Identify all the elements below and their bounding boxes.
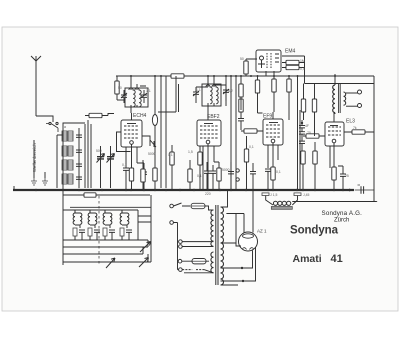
left vertical wires to bus xyxy=(14,185,63,190)
resistor R2 xyxy=(129,168,133,190)
cap C8 xyxy=(210,165,216,190)
cap C10 xyxy=(238,119,244,131)
resistor R-ant horizontal xyxy=(85,113,108,117)
ground mark A xyxy=(31,178,37,185)
svg-text:J 1,5: J 1,5 xyxy=(270,193,277,197)
svg-text:70: 70 xyxy=(307,131,311,135)
resistor R18 horizontal xyxy=(303,134,325,138)
svg-text:ECH4: ECH4 xyxy=(133,113,147,119)
cap C2 xyxy=(123,168,129,190)
ECH4 cathode wires xyxy=(126,144,137,168)
IF transformer T1 frame xyxy=(125,88,148,107)
rail junction dots xyxy=(130,75,336,77)
mains terminal 2 xyxy=(170,221,174,225)
svg-text:0,1: 0,1 xyxy=(122,163,127,167)
IFT2 primary coil xyxy=(206,85,212,104)
output transformer core xyxy=(339,83,341,113)
resistor R11b xyxy=(239,97,243,119)
front-end coil L4 xyxy=(62,174,67,184)
svg-text:1,5: 1,5 xyxy=(188,150,193,154)
svg-text:41: 41 xyxy=(331,253,343,265)
front-end coil L1 xyxy=(62,131,67,141)
resistor R20a xyxy=(312,84,316,137)
lower-left feed wire xyxy=(63,190,150,265)
mains switch xyxy=(174,203,191,206)
transformer core xyxy=(216,205,218,285)
svg-text:5000: 5000 xyxy=(148,152,156,156)
power transformer primary xyxy=(179,206,214,273)
resistor R5 xyxy=(170,145,174,190)
output transformer secondary xyxy=(344,92,346,105)
resistor R12 (70k) xyxy=(241,129,263,133)
resistor R13 xyxy=(244,136,248,190)
front-end coil L2 xyxy=(62,146,67,156)
EBF2 bottom wires xyxy=(203,144,214,190)
svg-text:50: 50 xyxy=(118,86,122,90)
EL3 screen resistor R21 xyxy=(344,130,374,134)
tuning gang cap 1 xyxy=(100,146,102,188)
cap C11 xyxy=(265,169,271,190)
EM4 resistor Ra xyxy=(282,60,305,64)
bottom fuse F2 xyxy=(192,259,206,264)
double vertical shield wires xyxy=(298,76,301,190)
resistor R11 xyxy=(239,76,243,110)
trimmer cap row 4 xyxy=(76,177,82,179)
svg-text:0,1: 0,1 xyxy=(168,153,173,157)
ground mark B xyxy=(42,178,48,185)
wires to right xyxy=(138,195,151,267)
tube EBF2 xyxy=(197,113,221,146)
svg-text:EL3: EL3 xyxy=(346,119,355,125)
AZ1 B+ feed xyxy=(253,203,255,205)
resistor R20 xyxy=(313,142,317,190)
tube EM4 box xyxy=(256,50,281,72)
svg-text:Sondyna: Sondyna xyxy=(290,225,339,237)
resistor R22 xyxy=(332,167,336,190)
bank vertical wires xyxy=(79,120,91,188)
EM4 resistor Rb xyxy=(282,65,305,69)
tube EL3 xyxy=(325,122,344,146)
svg-text:EBF2: EBF2 xyxy=(207,114,220,120)
tiny value labels xyxy=(64,57,357,197)
EM4 right wire xyxy=(282,56,374,84)
svg-text:7k: 7k xyxy=(353,126,357,130)
IFT1 primary coil xyxy=(129,88,135,107)
EM4 base wires xyxy=(266,71,274,76)
IFT2 trimmer left xyxy=(193,87,199,103)
resistor R4 xyxy=(153,168,157,190)
IFT1 trimmer left xyxy=(121,90,127,103)
cap C9 xyxy=(228,162,234,190)
resistor R1 xyxy=(115,76,119,100)
svg-text:4F: 4F xyxy=(305,124,309,128)
resistor R16 xyxy=(287,76,291,120)
svg-text:Zürch: Zürch xyxy=(334,217,349,223)
EF9 bottom wires xyxy=(268,143,278,168)
svg-text:1,1: 1,1 xyxy=(146,89,151,93)
resistor R7 on rail xyxy=(171,74,184,78)
wire xyxy=(117,99,125,101)
osc coil group 2 xyxy=(88,210,100,240)
resistor R8 xyxy=(214,162,221,190)
trimmer cap row 3 xyxy=(76,164,82,166)
right B+ vertical xyxy=(373,76,375,202)
filter choke xyxy=(266,194,298,205)
svg-text:Sondyna A.G.: Sondyna A.G. xyxy=(322,210,363,217)
svg-text:1,1: 1,1 xyxy=(196,88,201,92)
choke legs boxes xyxy=(262,193,269,196)
tube EF9 xyxy=(263,112,283,145)
wire xyxy=(44,172,46,178)
resistor R19a xyxy=(301,84,305,121)
rectifier AZ1 xyxy=(239,232,258,251)
top B+ rail xyxy=(116,75,374,77)
resistor R6 xyxy=(198,145,202,190)
svg-text:Amati: Amati xyxy=(293,253,322,265)
svg-text:0,5: 0,5 xyxy=(300,67,305,71)
osc coil group 1 xyxy=(73,210,85,240)
wires right of EBF2 xyxy=(226,76,236,190)
grid oval resistor R3 xyxy=(152,115,157,126)
svg-text:25: 25 xyxy=(345,174,349,178)
cap C3 xyxy=(137,163,147,190)
resistor R15 xyxy=(272,76,276,112)
dashed gang line xyxy=(98,196,100,264)
cap C5 xyxy=(204,162,210,190)
fuse F1 xyxy=(191,203,205,208)
svg-text:1M: 1M xyxy=(300,59,305,63)
osc bank wiring xyxy=(63,207,151,213)
svg-text:220: 220 xyxy=(205,192,211,196)
B+ line from choke xyxy=(292,200,377,203)
terminal circles (pickup) xyxy=(236,169,239,172)
EL3 cathode wires xyxy=(330,143,334,168)
IFT2 secondary coil xyxy=(212,85,218,104)
cap C12 xyxy=(299,132,305,153)
trimmer cap row 2 xyxy=(76,150,82,152)
tuning gang cap 2 xyxy=(110,146,112,188)
resistor R19 xyxy=(301,151,305,190)
svg-text:EM4: EM4 xyxy=(285,49,296,55)
wire antenna to switch xyxy=(36,116,53,122)
wire IFT2 to EBF2 xyxy=(207,106,209,113)
power transformer secondary xyxy=(221,190,244,285)
EL3 label wire top xyxy=(333,113,335,122)
svg-text:4,2: 4,2 xyxy=(228,89,233,93)
tube ECH4 xyxy=(121,113,142,147)
svg-text:0,1: 0,1 xyxy=(197,174,202,178)
svg-text:500: 500 xyxy=(96,149,102,153)
output transformer primary xyxy=(333,85,335,113)
antenna earth lead xyxy=(33,140,35,178)
svg-text:J,45: J,45 xyxy=(303,193,310,197)
resistor R9 xyxy=(188,160,192,190)
IFT1 trimmer right xyxy=(141,90,147,103)
svg-text:5000: 5000 xyxy=(222,168,230,172)
junction dot xyxy=(301,122,303,124)
ECH4 feedback bracket xyxy=(117,132,157,152)
svg-text:EF9: EF9 xyxy=(263,114,272,120)
antenna xyxy=(31,56,41,116)
svg-text:a: a xyxy=(64,125,66,129)
wire to grid xyxy=(108,114,114,116)
wire mid verticals xyxy=(140,76,166,188)
svg-text:0,1: 0,1 xyxy=(276,170,281,174)
speaker terminals xyxy=(346,92,358,94)
IFT2 trimmer right xyxy=(223,85,229,101)
wire from rail down xyxy=(158,76,179,112)
trimmer cap row 1 xyxy=(76,135,82,137)
svg-text:50: 50 xyxy=(240,57,244,61)
IFT1 secondary coil xyxy=(135,88,141,107)
svg-text:AZ 1: AZ 1 xyxy=(257,229,267,234)
EM4 left resistor Rc xyxy=(244,59,257,76)
wire xyxy=(63,254,148,262)
cap C9b xyxy=(250,163,256,190)
mains terminal 1 xyxy=(170,204,174,208)
front-end coil L3 xyxy=(62,160,67,170)
osc coil group 4 xyxy=(120,210,132,240)
padder arrow 1 xyxy=(104,258,115,268)
resistor R17 xyxy=(271,167,275,190)
svg-text:0,1: 0,1 xyxy=(249,145,254,149)
EF9 top resistor R14 xyxy=(255,76,262,113)
svg-text:Wellenbereich: Wellenbereich xyxy=(32,142,37,172)
cap C14 xyxy=(338,166,346,190)
junction dots transformer xyxy=(241,267,243,269)
wire bank top xyxy=(63,123,85,131)
cap C13 xyxy=(299,120,305,132)
wire IFT1 to ECH4 grid xyxy=(130,107,132,113)
resistor R10 xyxy=(141,160,145,190)
switch S1a xyxy=(49,122,51,124)
osc coil group 3 xyxy=(103,210,115,240)
coil bank left wires xyxy=(57,131,63,188)
bus end cap C15 xyxy=(358,185,364,194)
IF transformer T2 frame xyxy=(202,84,221,106)
main ground bus xyxy=(13,189,354,191)
bottom terminal xyxy=(178,259,182,263)
bus junction dots xyxy=(35,189,344,191)
resistor R23 horizontal below bus xyxy=(84,193,96,197)
